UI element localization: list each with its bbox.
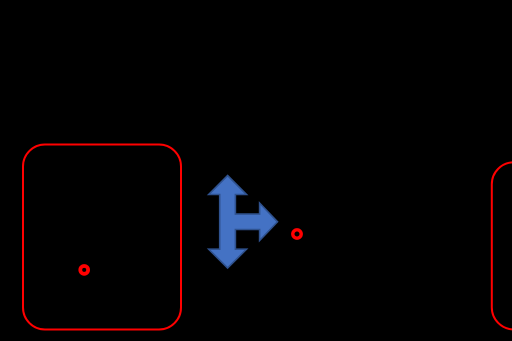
right rounded rectangle (partially off-screen)	[492, 162, 512, 329]
small red ring inside left rectangle	[80, 266, 88, 274]
small red ring near arrow tip	[293, 230, 301, 238]
blue 3-way arrow (up / down / right)	[209, 176, 278, 269]
left rounded rectangle (red screen outline)	[23, 145, 181, 330]
